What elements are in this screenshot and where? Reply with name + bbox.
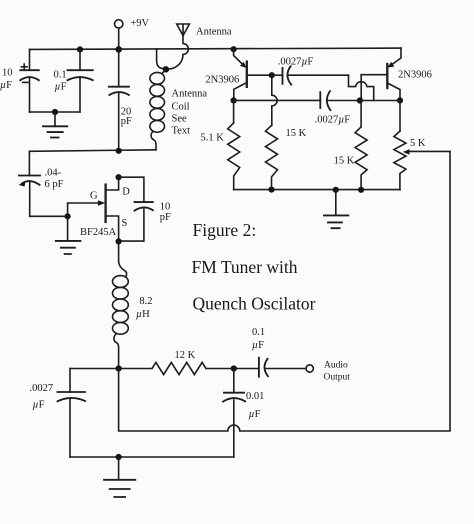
svg-text:Figure 2:: Figure 2: xyxy=(193,220,257,240)
svg-text:Quench Oscilator: Quench Oscilator xyxy=(193,294,316,314)
svg-text:Antenna: Antenna xyxy=(196,27,232,38)
wire gate lead with arrow xyxy=(68,200,106,216)
node drain/10pF xyxy=(116,174,122,180)
top +9V rail xyxy=(30,48,402,49)
wire rail to antenna coil top xyxy=(157,49,166,70)
svg-text:8.2: 8.2 xyxy=(139,296,152,307)
power +9V terminal xyxy=(115,18,150,49)
svg-text:µH: µH xyxy=(136,309,150,320)
node bottom ground xyxy=(116,454,122,460)
wire antenna drop with hop over rail xyxy=(167,36,189,70)
wire bypass caps bottom xyxy=(30,111,81,113)
node C7/Q2 base xyxy=(357,97,363,103)
capacitor C4 .04-6pF trimmer xyxy=(19,151,64,216)
svg-text:15 K: 15 K xyxy=(334,156,355,167)
transistor Q1 2N3906 left xyxy=(205,49,271,100)
ground oscillator xyxy=(324,190,348,228)
capacitor C8 0.1uF output xyxy=(252,327,306,377)
wire trimmer to gate node xyxy=(30,215,68,217)
node rail/0.1uF xyxy=(77,46,83,52)
node ground stem xyxy=(333,187,339,193)
node gate/ground xyxy=(65,213,71,219)
svg-text:BF245A: BF245A xyxy=(80,227,117,238)
node Q2 collector xyxy=(397,97,403,103)
resistor R4 5K pot xyxy=(394,100,426,189)
inductor L2 8.2uH xyxy=(113,241,153,368)
svg-text:5 K: 5 K xyxy=(410,138,426,149)
node Q1 base / 15K xyxy=(269,72,275,78)
svg-text:G: G xyxy=(90,191,98,202)
wire detector output line xyxy=(70,368,259,370)
wire between nodes xyxy=(360,100,400,102)
capacitor C9 0.01uF xyxy=(223,369,264,458)
svg-text:Audio: Audio xyxy=(324,361,348,371)
node source/10pF/L2 xyxy=(116,238,122,244)
node bypass ground xyxy=(52,109,58,115)
node L2 bottom / feedback tap xyxy=(116,365,122,371)
capacitor C2 0.1uF xyxy=(54,49,93,112)
svg-text:FM Tuner with: FM Tuner with xyxy=(192,257,298,277)
svg-text:See: See xyxy=(172,114,188,125)
node Q1 collector xyxy=(231,97,237,103)
wire bottom ground line xyxy=(70,456,234,458)
node 0.01uF top xyxy=(231,365,237,371)
figure caption xyxy=(192,220,316,314)
svg-text:.0027: .0027 xyxy=(30,383,54,394)
node coil tap xyxy=(163,66,169,72)
svg-text:6 pF: 6 pF xyxy=(45,179,64,190)
svg-text:Output: Output xyxy=(324,373,351,383)
capacitor C5 10pF xyxy=(119,177,171,241)
svg-text:12 K: 12 K xyxy=(175,350,196,361)
wire oscillator bottom line xyxy=(234,189,400,191)
wire feedback from tap to 5K wiper with hop xyxy=(119,151,450,431)
svg-text:10: 10 xyxy=(160,202,171,213)
svg-text:Coil: Coil xyxy=(172,102,190,113)
resistor R3 15K right xyxy=(334,101,368,190)
ground gate leak xyxy=(56,216,81,254)
svg-text:S: S xyxy=(122,218,128,229)
svg-text:15 K: 15 K xyxy=(286,128,307,139)
svg-text:µF: µF xyxy=(55,82,67,93)
svg-text:2N3906: 2N3906 xyxy=(205,75,239,86)
wire cross-coupling C6 to Q2 collector with hop xyxy=(349,75,374,100)
antenna xyxy=(177,24,232,38)
transistor Q2 2N3906 right xyxy=(387,48,432,100)
wire +9V to rail xyxy=(118,28,120,49)
ground bypass caps xyxy=(43,112,67,138)
resistor R1 5.1K xyxy=(201,100,240,189)
svg-text:+9V: +9V xyxy=(130,18,149,29)
svg-text:2N3906: 2N3906 xyxy=(398,70,432,81)
svg-text:5.1 K: 5.1 K xyxy=(201,133,225,144)
svg-text:µF: µF xyxy=(252,340,264,351)
capacitor C10 .0027uF bottom xyxy=(30,369,86,458)
capacitor C6 .0027uF top xyxy=(272,57,349,85)
node rail/Q1 emitter xyxy=(231,46,237,52)
audio output terminal xyxy=(306,361,350,383)
capacitor C7 .0027uF middle xyxy=(234,91,360,125)
svg-text:.0027µF: .0027µF xyxy=(315,115,351,126)
capacitor C1 10uF electrolytic xyxy=(0,49,39,112)
node 20pF/drain line xyxy=(116,148,122,154)
node R3 bottom xyxy=(358,187,364,193)
transistor Q3 BF245A JFET xyxy=(80,177,130,241)
node R2 bottom xyxy=(268,187,274,193)
ground bottom xyxy=(104,457,135,497)
svg-text:Text: Text xyxy=(172,126,191,137)
svg-text:.0027µF: .0027µF xyxy=(278,57,314,68)
svg-text:pF: pF xyxy=(121,116,132,127)
resistor R2 15K left with hop over collector line xyxy=(266,75,307,189)
wire Q2 base down to lower node xyxy=(360,75,362,101)
svg-text:0.1: 0.1 xyxy=(54,70,67,81)
svg-text:D: D xyxy=(122,187,130,198)
svg-text:Antenna: Antenna xyxy=(172,89,208,100)
wire Q2 base lead xyxy=(361,74,387,76)
svg-text:µF: µF xyxy=(0,80,12,91)
svg-text:µF: µF xyxy=(33,400,45,411)
svg-text:µF: µF xyxy=(249,409,261,420)
inductor L1 antenna coil xyxy=(150,69,208,150)
svg-text:0.1: 0.1 xyxy=(252,327,265,338)
svg-text:.04-: .04- xyxy=(45,168,62,179)
svg-text:0.01: 0.01 xyxy=(246,391,264,402)
wire 5K wiper arrow xyxy=(403,149,450,155)
capacitor C3 20pF xyxy=(109,49,132,151)
svg-text:10: 10 xyxy=(2,68,13,79)
wire tank line y151 xyxy=(29,150,156,152)
svg-text:pF: pF xyxy=(160,212,171,223)
resistor R5 12K xyxy=(152,350,206,375)
node rail/+9V/20pF xyxy=(115,46,122,53)
